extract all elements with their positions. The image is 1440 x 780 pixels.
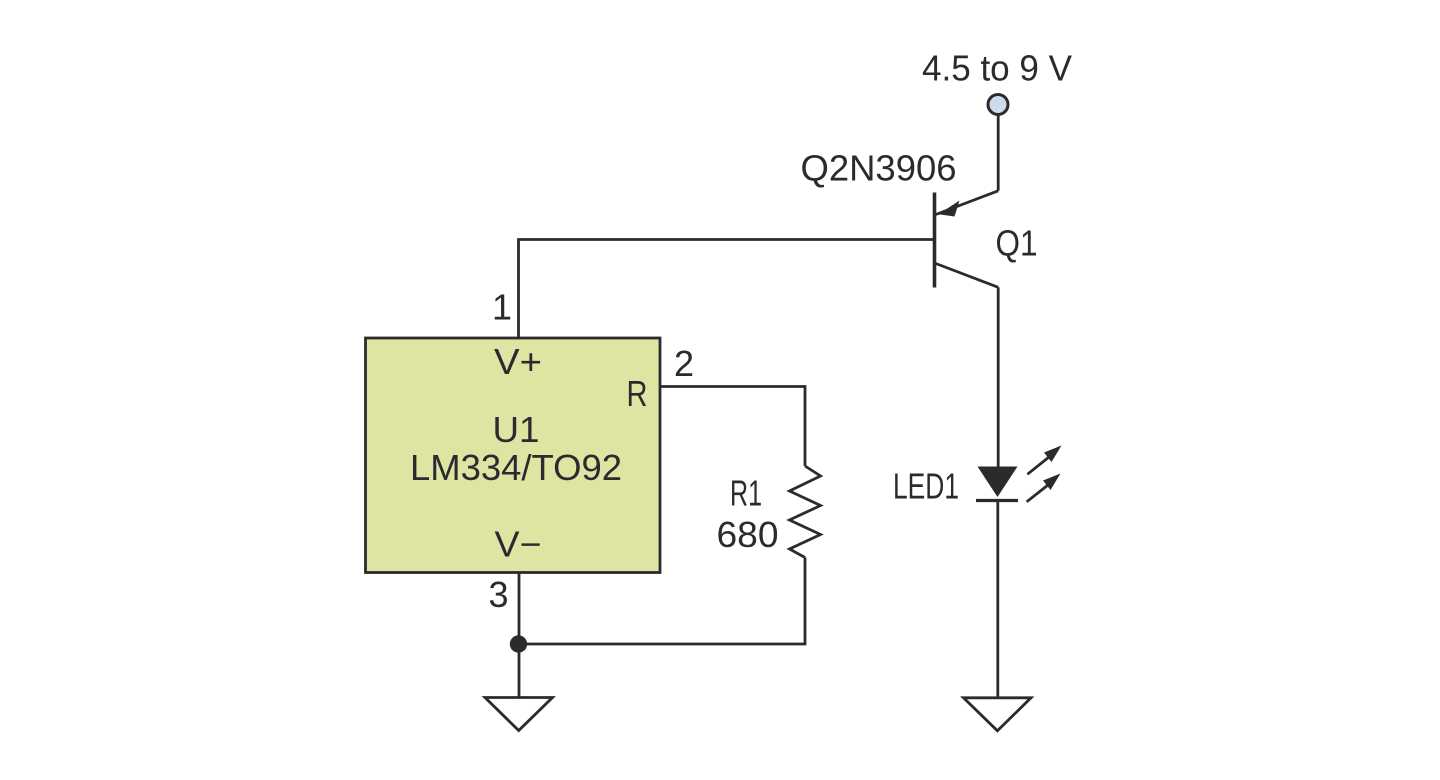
svg-text:U1: U1	[493, 409, 540, 450]
wire: Q1 base to U1 pin 1	[519, 240, 935, 338]
svg-text:2: 2	[674, 343, 694, 384]
svg-text:4.5 to 9 V: 4.5 to 9 V	[922, 48, 1072, 89]
wire: Q1 collector to LED1 anode	[997, 287, 1000, 467]
junction dot	[510, 635, 527, 652]
svg-text:1: 1	[492, 287, 512, 328]
ground (left)	[485, 698, 553, 731]
svg-text:R: R	[627, 373, 648, 414]
svg-text:680: 680	[717, 514, 779, 555]
transistor Q1 (PNP Q2N3906)	[935, 191, 999, 288]
svg-text:Q1: Q1	[996, 223, 1038, 264]
wire: terminal to Q1 emitter	[997, 116, 1000, 191]
wire: U1 R pin to R1 top	[661, 387, 805, 467]
power terminal	[988, 95, 1008, 115]
LED light arrows	[1027, 446, 1062, 502]
svg-text:LED1: LED1	[893, 466, 959, 507]
svg-text:R1: R1	[730, 473, 762, 514]
IC U1 LM334/TO92	[366, 338, 661, 573]
svg-text:V+: V+	[494, 341, 542, 382]
wire: R1 bottom to junction	[524, 558, 805, 645]
wire: LED1 cathode to ground	[996, 501, 999, 697]
svg-text:LM334/TO92: LM334/TO92	[410, 447, 622, 488]
LED LED1	[976, 467, 1018, 501]
wire: U1 pin 3 to ground	[518, 573, 521, 697]
resistor R1	[790, 466, 821, 558]
svg-text:V−: V−	[495, 524, 542, 565]
svg-text:3: 3	[488, 574, 508, 615]
svg-text:Q2N3906: Q2N3906	[801, 148, 957, 189]
ground (right)	[964, 698, 1032, 731]
